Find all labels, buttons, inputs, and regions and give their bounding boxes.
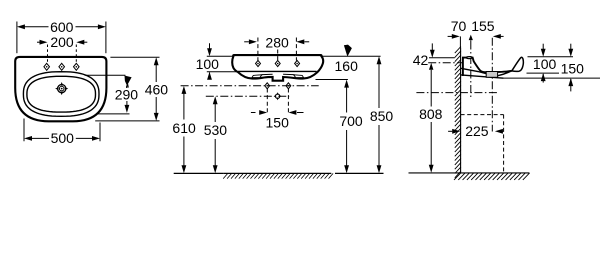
dimension 460: reference lines	[110, 56, 159, 58]
wall face line	[460, 48, 462, 173]
basin rim inner oval	[27, 76, 96, 112]
dimension 42: reference lines	[429, 57, 455, 59]
floor hatching (side view)	[454, 173, 530, 180]
dimension 225: arrows + label	[448, 130, 452, 132]
dimension 42: arrows + label	[431, 43, 433, 50]
dimension 160 (right): solid flag arrow + label	[344, 45, 352, 57]
basin bottom back edge (straight)	[238, 70, 317, 72]
hidden pedestal dashed outline	[461, 114, 504, 116]
svg-text:290: 290	[115, 87, 139, 103]
svg-text:500: 500	[51, 130, 75, 146]
svg-text:460: 460	[145, 81, 169, 97]
tap centre dash-dot lines	[257, 38, 259, 61]
dimension 600: line + arrows	[24, 26, 49, 28]
dimension 500: extension lines	[23, 119, 25, 142]
fixing height dash-dot line	[416, 92, 499, 94]
basin underside near wall	[461, 68, 504, 78]
tap hole ellipse on deck	[466, 57, 472, 59]
wall hatching band	[455, 47, 461, 178]
right reference line A (rim top)	[528, 56, 574, 58]
tap holes (3 diamonds)	[44, 63, 50, 70]
dimension 290: label	[114, 88, 139, 101]
right reference line B	[527, 72, 562, 74]
rim top extension lines	[207, 55, 233, 57]
right reference line C	[504, 77, 600, 79]
floor line	[174, 172, 224, 174]
svg-text:530: 530	[204, 122, 228, 138]
dimension 600: extension lines	[16, 22, 18, 54]
svg-text:155: 155	[471, 18, 495, 34]
basin side profile: deck + bowl + right rim	[462, 58, 512, 73]
underside to lip pinch	[498, 71, 512, 76]
dimension 700	[346, 83, 348, 113]
svg-text:150: 150	[266, 114, 290, 130]
svg-text:808: 808	[419, 106, 443, 122]
svg-text:100: 100	[533, 56, 557, 72]
basin back edge at wall	[462, 58, 464, 76]
dimension 290: down arrow + bottom reference line	[126, 101, 128, 105]
left mounting wing	[252, 75, 262, 78]
dimension 150: arrows + label	[251, 112, 256, 114]
rim lip hook (side section)	[512, 57, 524, 71]
left 100 bottom reference	[207, 71, 238, 73]
svg-text:70: 70	[451, 18, 467, 34]
drain trap (grey)	[486, 72, 497, 78]
tap centre dash-dot (side)	[470, 42, 472, 98]
floor hatching	[223, 173, 333, 178]
svg-text:160: 160	[335, 58, 359, 74]
svg-text:850: 850	[370, 108, 394, 124]
fixing hole right	[286, 83, 291, 89]
fixing hole left	[265, 83, 270, 89]
basin front outline	[232, 55, 323, 81]
tap holes on front face	[256, 60, 261, 66]
dimension 530	[214, 99, 216, 122]
dimension 280: arrows + label	[244, 41, 249, 43]
dimension 290: leader line + solid flag arrow	[85, 74, 126, 76]
svg-text:610: 610	[172, 120, 196, 136]
dimension 808	[429, 63, 433, 70]
basin rim outer oval	[23, 72, 99, 117]
dimension 150 (side): arrows + label	[570, 44, 572, 51]
svg-text:150: 150	[561, 61, 585, 77]
fixing hole dashes down	[266, 89, 268, 114]
dimension 70/155 arrows	[448, 35, 452, 37]
right 160 bottom reference	[316, 79, 348, 81]
drain symbol (front)	[275, 94, 279, 98]
svg-text:42: 42	[413, 52, 429, 68]
right mounting wing	[294, 75, 304, 78]
drain centre dash-dot (side)	[491, 38, 493, 132]
svg-text:280: 280	[265, 34, 289, 50]
drain centre dash-dot line	[206, 95, 289, 97]
dimension 850	[378, 60, 380, 109]
basin outer body (top view)	[15, 57, 106, 121]
dimension 460: line + arrows	[155, 60, 157, 82]
drain symbol (target)	[58, 85, 66, 93]
svg-text:100: 100	[196, 56, 220, 72]
svg-text:700: 700	[339, 113, 363, 129]
floor line (side view)	[409, 172, 530, 174]
svg-text:600: 600	[50, 19, 74, 35]
svg-text:225: 225	[465, 123, 489, 139]
dimension 100 (left): arrows + label	[209, 43, 211, 50]
tap hole centre dashes	[47, 45, 49, 64]
basin inner bottom line	[253, 74, 302, 76]
svg-text:200: 200	[50, 34, 74, 50]
fixing holes dash-dot line	[181, 85, 319, 87]
dimension 200: arrows	[37, 41, 41, 43]
dimension 500: line + arrows	[31, 137, 49, 139]
dimension 100 (side): arrows + label	[542, 44, 544, 51]
dimension 610	[183, 89, 185, 120]
